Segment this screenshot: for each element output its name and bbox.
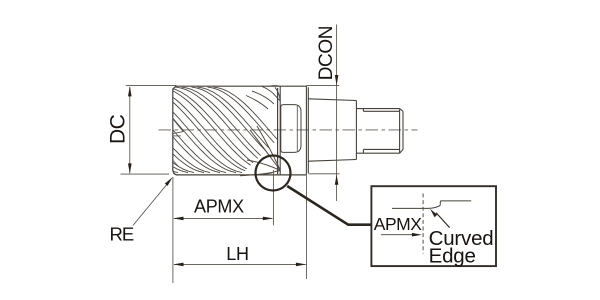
corner cutting-edge curves converging at bottom-right (detail area) bbox=[240, 126, 280, 176]
centerline bbox=[159, 129, 418, 131]
taper neck bbox=[308, 99, 356, 161]
svg-text:APMX: APMX bbox=[374, 214, 422, 234]
svg-text:DC: DC bbox=[107, 114, 130, 144]
cutter head outline bbox=[173, 86, 307, 175]
flutes (helix spiral lines) bbox=[64, 87, 323, 173]
LH dimension bbox=[174, 176, 307, 279]
clamp flat tangent edge line bbox=[296, 106, 298, 151]
top-right corner tooth curves bbox=[246, 86, 280, 109]
left edge tooth marks bbox=[173, 119, 183, 167]
DC dimension bbox=[121, 85, 177, 174]
APMX dimension bbox=[173, 170, 274, 283]
DCON dimension bbox=[336, 25, 338, 202]
detail: APMX arrow bbox=[381, 234, 413, 236]
detail: dashed APMX boundary line bbox=[422, 194, 424, 254]
svg-text:DCON: DCON bbox=[316, 26, 337, 80]
collar clamp flat (rounded rect) bbox=[281, 105, 301, 153]
svg-text:LH: LH bbox=[226, 244, 248, 264]
detail: edge profile bbox=[392, 201, 471, 209]
svg-text:Edge: Edge bbox=[429, 245, 476, 268]
svg-text:RE: RE bbox=[110, 224, 134, 245]
leader from circle to detail box bbox=[287, 186, 371, 225]
flange ring (DCON diameter) bbox=[306, 86, 308, 174]
detail circle bbox=[256, 156, 291, 191]
head/collar junction line bbox=[279, 86, 281, 175]
detail: curved edge pointer arrow bbox=[436, 213, 450, 228]
detail box bbox=[371, 186, 496, 266]
svg-text:APMX: APMX bbox=[194, 197, 244, 217]
threaded stud bbox=[356, 109, 403, 154]
